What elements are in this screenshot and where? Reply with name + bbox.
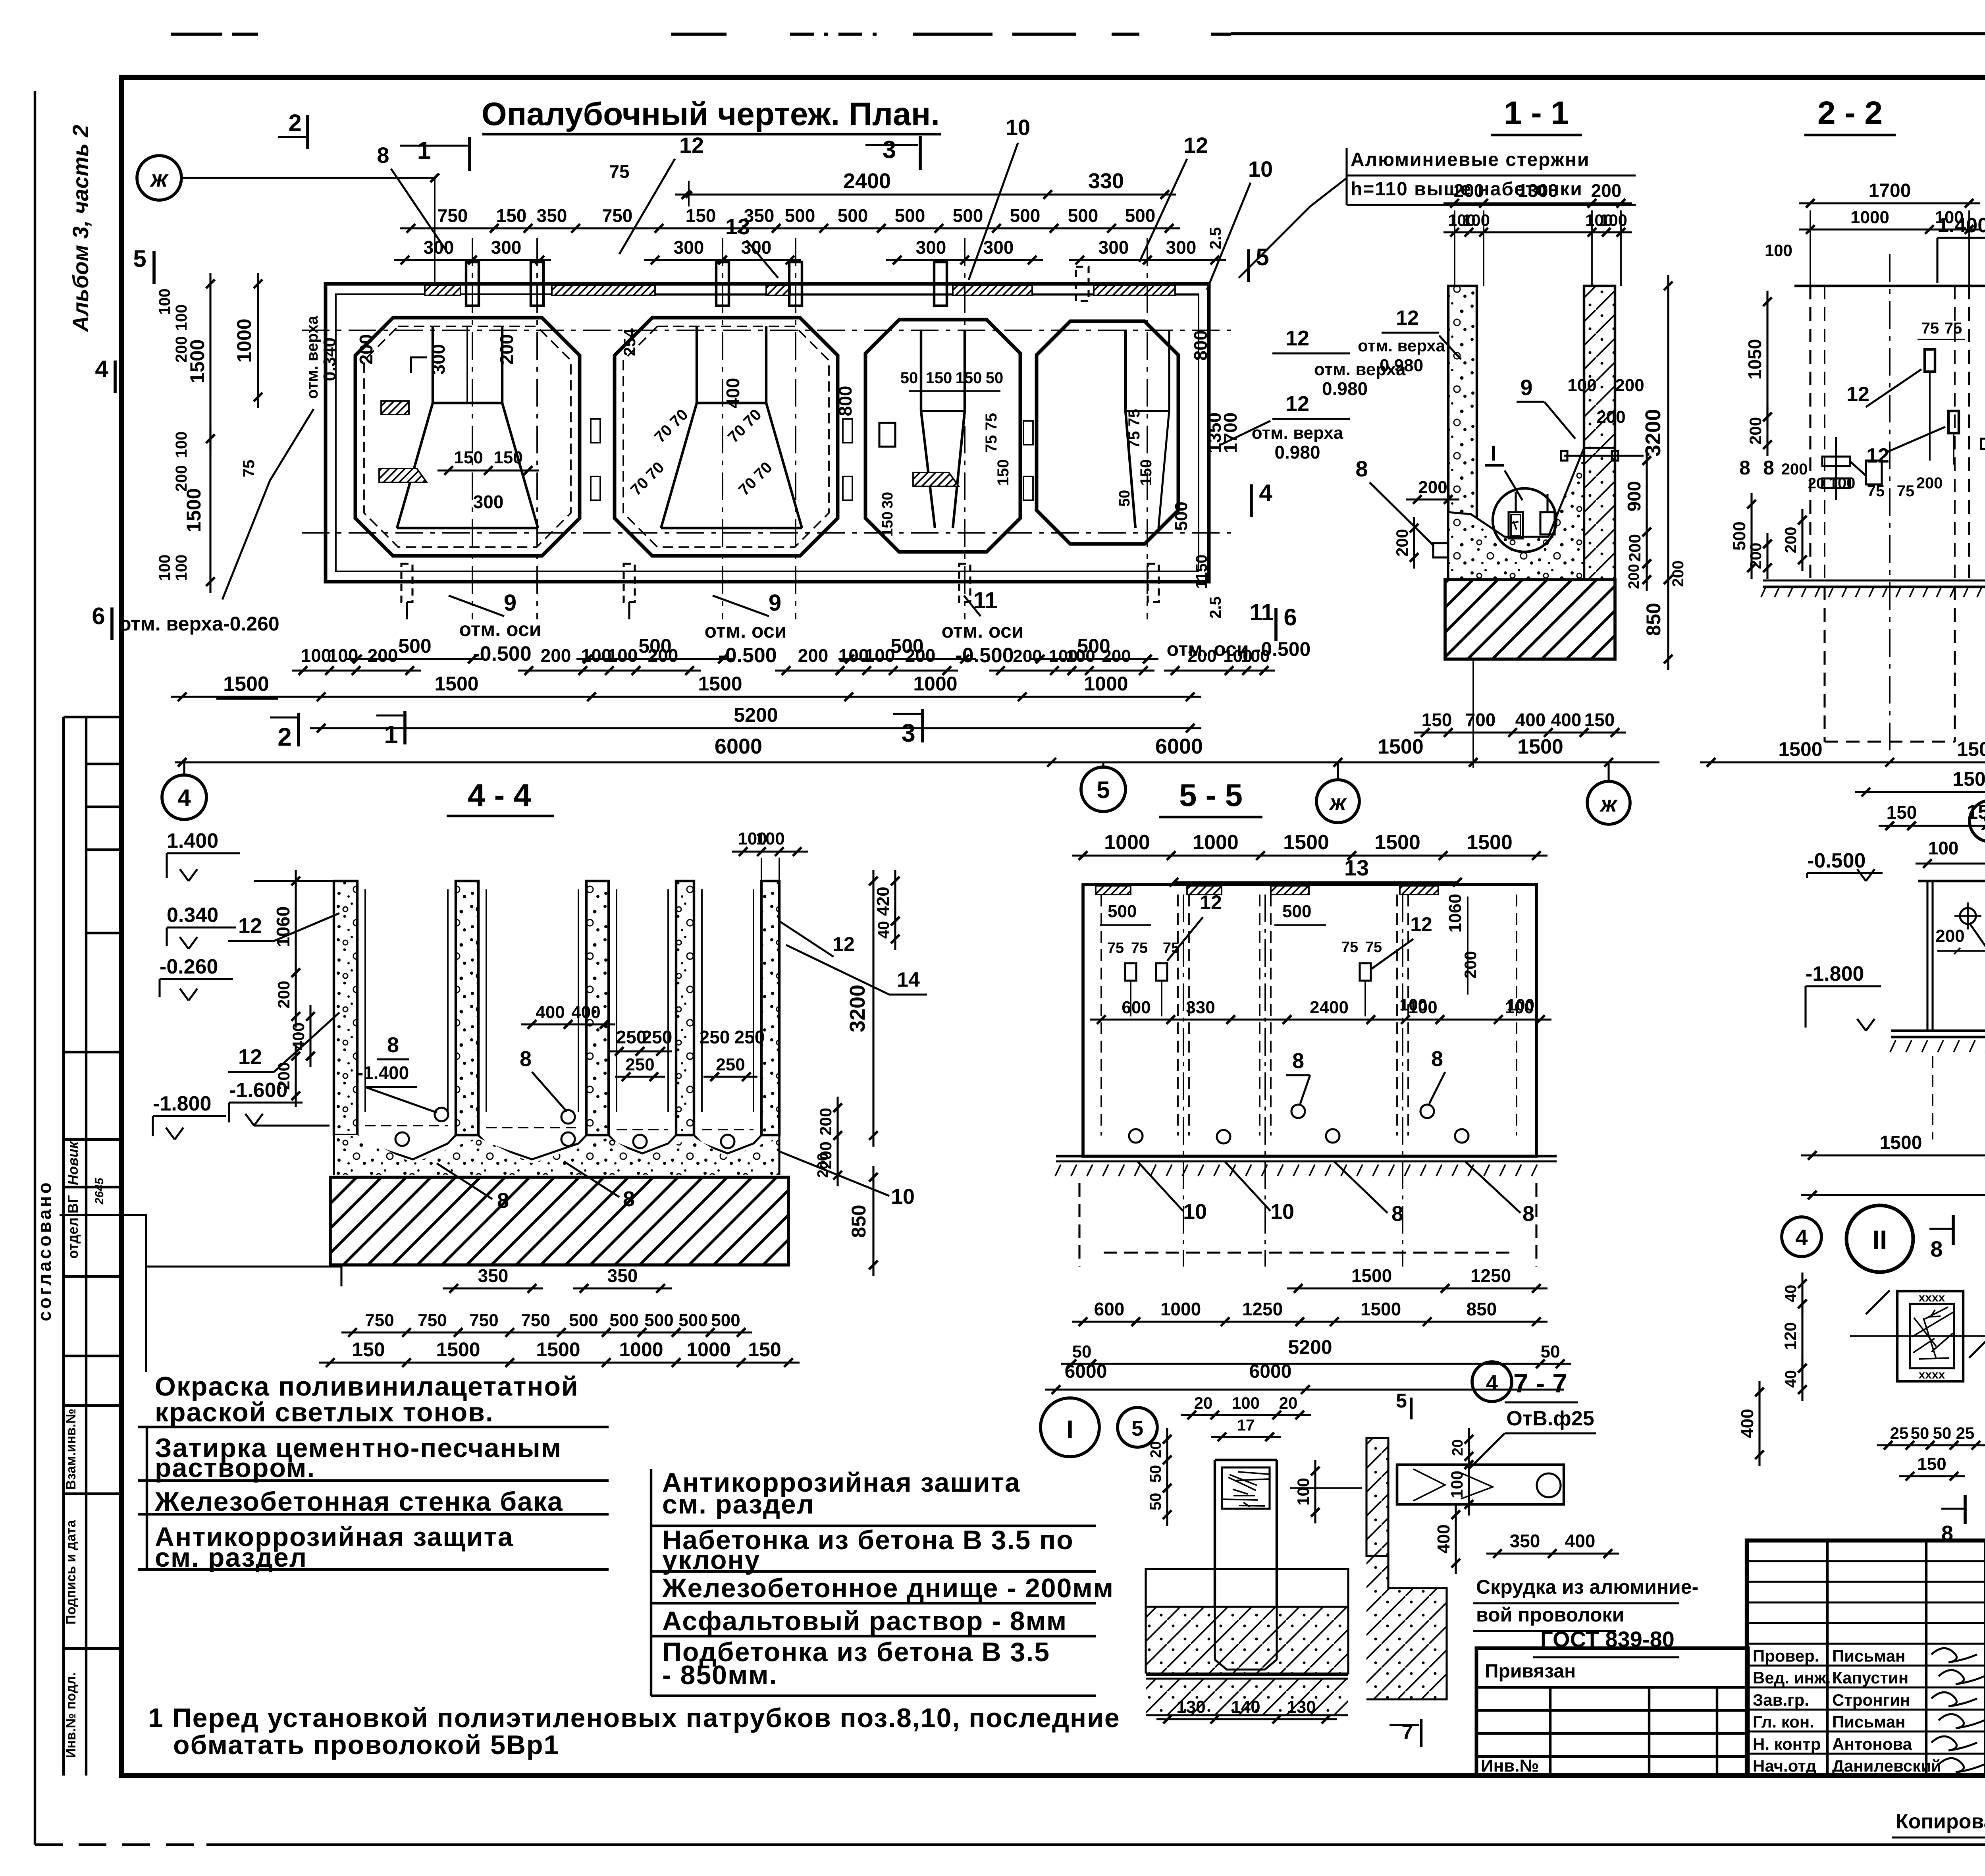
svg-text:750: 750 [418,1311,447,1330]
left stamp column [62,717,65,1776]
cell 3 interior funnel [920,330,922,411]
svg-text:200: 200 [356,334,376,365]
svg-text:200: 200 [905,645,936,666]
svg-text:Капустин: Капустин [1832,1668,1908,1687]
svg-text:300: 300 [741,237,772,258]
svg-text:1060: 1060 [273,906,293,947]
svg-text:ж: ж [1599,791,1618,816]
svg-text:200: 200 [798,645,829,666]
svg-text:14: 14 [897,968,920,991]
svg-text:20: 20 [1808,475,1825,492]
grid circle Zh below 2-2 [1970,800,1985,842]
svg-text:3200: 3200 [1641,409,1665,457]
svg-text:4: 4 [95,356,108,382]
stamp signature rows [1747,1664,1985,1666]
svg-text:850: 850 [848,1205,870,1238]
svg-text:500: 500 [644,1311,673,1330]
svg-text:8: 8 [1391,1202,1403,1226]
svg-text:1: 1 [384,720,398,749]
svg-text:700: 700 [1465,710,1496,730]
svg-text:5: 5 [1097,777,1110,803]
svg-text:850: 850 [1642,603,1665,636]
svg-text:1060: 1060 [1445,894,1465,933]
svg-text:1 - 1: 1 - 1 [1504,95,1569,131]
svg-text:4: 4 [177,785,191,811]
svg-text:300: 300 [1098,237,1129,258]
svg-text:500: 500 [398,635,431,657]
svg-text:Стронгин: Стронгин [1832,1691,1910,1709]
svg-text:Письман: Письман [1832,1647,1905,1665]
svg-text:1250: 1250 [1470,1265,1511,1286]
svg-text:400: 400 [1515,710,1546,730]
svg-text:Антонова: Антонова [1832,1735,1912,1753]
2-2 left dims [1766,291,1768,428]
detail I wood block [1222,1467,1270,1509]
svg-text:200: 200 [274,1062,293,1090]
svg-text:200: 200 [1454,180,1484,201]
svg-text:Подпись и дата: Подпись и дата [64,1519,79,1625]
svg-text:100: 100 [1462,211,1490,229]
svg-text:2.5: 2.5 [1207,227,1224,249]
svg-text:0.980: 0.980 [1380,356,1423,375]
svg-text:0.980: 0.980 [1322,378,1368,399]
svg-text:500: 500 [569,1311,598,1330]
svg-text:350: 350 [607,1265,638,1286]
detail II cut 8 below [1941,1508,1965,1510]
svg-text:100: 100 [1567,376,1596,395]
svg-text:0.340: 0.340 [320,337,339,381]
svg-text:12: 12 [1285,326,1309,350]
svg-text:130: 130 [1287,1697,1316,1717]
svg-text:2.5: 2.5 [1207,596,1224,619]
svg-text:1500: 1500 [1957,738,1985,760]
5-5 hole circles [1129,1129,1143,1143]
svg-text:0.340: 0.340 [167,904,218,927]
2-2 top edge [1794,285,1985,287]
svg-text:1500: 1500 [1378,735,1424,758]
svg-text:400: 400 [289,1022,308,1050]
2-2 plate right mid [1981,439,1985,449]
svg-text:100: 100 [1765,241,1792,260]
svg-text:750: 750 [469,1311,498,1330]
svg-text:1500: 1500 [1967,801,1985,823]
svg-text:ж: ж [1328,790,1347,815]
svg-text:ОтВ.ф25: ОтВ.ф25 [1506,1407,1594,1430]
svg-text:200: 200 [173,336,190,363]
1-1 right wall [1584,286,1615,580]
svg-text:400: 400 [1565,1531,1596,1551]
circled 5 mid [1081,767,1125,812]
svg-text:отм. верха: отм. верха [1358,336,1445,355]
detail II break lines [1866,1290,1890,1314]
svg-text:150: 150 [926,369,952,387]
svg-text:10: 10 [891,1185,915,1209]
svg-text:2400: 2400 [843,169,891,193]
svg-text:0.980: 0.980 [1274,442,1320,463]
pipe stubs on top wall [466,262,479,306]
svg-text:200: 200 [1746,417,1765,445]
svg-text:850: 850 [1467,1299,1497,1319]
4-4 interior dims [521,1023,615,1025]
svg-text:420: 420 [873,887,893,916]
cell 2 interior funnel [696,326,698,403]
svg-text:1500: 1500 [536,1338,580,1361]
svg-text:50: 50 [1147,1493,1164,1511]
small side stubs [591,419,600,443]
svg-text:100: 100 [1241,646,1270,666]
svg-text:4: 4 [1259,480,1272,506]
svg-text:Письман: Письман [1832,1712,1905,1731]
svg-text:50: 50 [1911,1424,1929,1442]
svg-text:отм. верха-0.260: отм. верха-0.260 [119,613,279,635]
6-6 hole circles [1960,908,1976,924]
grid circle Zh below plan [1316,780,1359,823]
svg-text:2 - 2: 2 - 2 [1817,95,1883,131]
svg-text:10: 10 [1270,1200,1294,1224]
detail I foundation [1146,1569,1348,1607]
svg-text:400: 400 [1738,1409,1757,1438]
svg-text:ж: ж [150,166,169,192]
svg-text:400: 400 [536,1003,565,1022]
svg-text:100: 100 [1232,1394,1260,1412]
circled 4 left [162,775,206,819]
svg-text:75: 75 [1867,482,1885,500]
plan left dimensions [209,273,211,450]
pipe stubs on bottom wall [401,564,412,602]
svg-text:150: 150 [454,448,483,467]
svg-text:- 850мм.: - 850мм. [662,1660,778,1690]
7-7 wood plank [1397,1465,1564,1504]
svg-text:1500: 1500 [1361,1299,1401,1319]
svg-text:I: I [1490,442,1496,465]
svg-text:200: 200 [816,1108,835,1136]
svg-text:8: 8 [1739,457,1750,479]
1-1 bottom concrete mass [1448,448,1584,580]
cell 4 interior funnel [1124,330,1127,411]
svg-text:150: 150 [994,459,1012,486]
svg-text:7 - 7: 7 - 7 [1513,1368,1567,1398]
svg-text:8: 8 [387,1033,399,1057]
svg-text:140: 140 [1231,1697,1260,1717]
svg-text:см. раздел: см. раздел [155,1542,307,1573]
svg-text:150: 150 [496,205,527,226]
svg-text:350: 350 [537,205,567,226]
svg-text:500: 500 [895,205,925,226]
svg-text:Нач.отд: Нач.отд [1753,1756,1816,1775]
5-5 dashed foundation [1078,1183,1080,1267]
grid circle Zh top-left [137,156,181,200]
tank cell 4 octagon [1037,321,1178,544]
svg-text:Копировал: Боброва: Копировал: Боброва [1896,1810,1985,1833]
4-4 inner wall faces [364,889,366,1112]
svg-text:1500: 1500 [1880,1132,1922,1153]
svg-text:Асфальтовый раствор - 8мм: Асфальтовый раствор - 8мм [662,1606,1067,1636]
svg-text:12: 12 [679,133,704,158]
svg-text:I: I [1066,1415,1073,1444]
svg-text:-1.400: -1.400 [357,1062,409,1083]
svg-text:Инв.№ подл.: Инв.№ подл. [64,1672,79,1758]
4-4 bottom dims [443,1287,543,1289]
svg-text:отм. оси: отм. оси [942,620,1024,642]
circled I and 5 [1041,1398,1099,1457]
svg-text:Алюминиевые стержни: Алюминиевые стержни [1351,149,1590,170]
svg-text:5: 5 [1256,244,1269,270]
svg-text:2645: 2645 [93,1177,106,1205]
svg-text:8: 8 [377,143,389,168]
svg-text:12: 12 [1396,307,1419,330]
svg-text:200: 200 [541,645,571,666]
svg-text:150: 150 [1422,710,1452,730]
svg-text:8: 8 [1431,1047,1443,1071]
small privyazan table [1476,1648,1748,1776]
nabetonka hatched strips on top wall [425,285,461,295]
svg-text:150: 150 [879,511,896,536]
svg-text:краской светлых тонов.: краской светлых тонов. [155,1397,494,1427]
svg-text:50: 50 [900,369,918,387]
svg-text:75 75: 75 75 [983,413,1000,453]
svg-text:1000: 1000 [233,318,255,362]
svg-text:75: 75 [240,460,258,478]
svg-text:4: 4 [1795,1225,1808,1250]
svg-text:100: 100 [173,555,190,581]
svg-text:50: 50 [1072,1342,1092,1361]
svg-text:100: 100 [301,645,331,666]
svg-text:500: 500 [1010,205,1041,226]
5-5 outline [1083,885,1536,1156]
4-4 U bottoms and funnels [357,1135,456,1159]
svg-text:12: 12 [1200,891,1222,914]
svg-text:100: 100 [607,645,638,666]
svg-text:100: 100 [328,645,358,666]
4-4 foundation slab [330,1177,788,1265]
svg-text:10: 10 [1006,115,1030,140]
grid circles below 6-6 [1782,1217,1821,1257]
svg-text:330: 330 [1186,998,1215,1017]
svg-text:4 - 4: 4 - 4 [468,777,532,813]
1-1 anchors in floor [1509,512,1523,538]
embedded anchor cell3 [913,472,959,486]
svg-text:200: 200 [1596,407,1625,427]
svg-text:200: 200 [1102,646,1131,666]
svg-text:200: 200 [1916,474,1943,492]
svg-text:Н. контр: Н. контр [1753,1735,1821,1753]
4-4 dashed floor lines [365,1125,448,1126]
svg-text:150: 150 [956,369,982,387]
circled 4 near 7-7 [1472,1362,1512,1402]
stamp upper-left thin rows [1747,1560,1985,1562]
svg-text:Железобетонное днище - 200мм: Железобетонное днище - 200мм [662,1573,1114,1603]
svg-text:1500: 1500 [1517,735,1563,758]
detail II dims [1801,1273,1803,1315]
svg-text:100: 100 [1447,1471,1466,1498]
cell 1 interior funnel [432,326,434,403]
svg-text:1050: 1050 [1744,339,1765,380]
svg-text:4: 4 [1486,1371,1498,1395]
svg-text:350: 350 [1510,1531,1540,1551]
svg-text:150: 150 [686,205,716,226]
svg-text:1300: 1300 [1518,180,1558,201]
detail I dims [1181,1414,1311,1416]
svg-text:500: 500 [1108,902,1137,921]
svg-text:отдел ВГ: отдел ВГ [65,1195,81,1259]
svg-text:12: 12 [1183,133,1208,158]
svg-text:200: 200 [1625,534,1644,562]
svg-text:800: 800 [1190,330,1211,361]
svg-text:1500: 1500 [698,673,742,695]
svg-text:Железобетонная стенка бака: Железобетонная стенка бака [154,1487,563,1517]
svg-text:1700: 1700 [1869,180,1911,201]
svg-text:500: 500 [838,205,868,226]
6-6 top dim row [1916,862,1985,864]
svg-text:100: 100 [1399,995,1427,1014]
svg-text:6000: 6000 [715,735,762,758]
svg-text:100: 100 [156,289,173,315]
svg-text:200: 200 [1626,564,1642,589]
svg-text:30: 30 [879,492,896,509]
svg-text:130: 130 [1176,1697,1205,1717]
svg-text:-0.260: -0.260 [160,955,218,978]
svg-text:200: 200 [1418,478,1447,497]
svg-text:1500: 1500 [1283,831,1329,854]
3-3 bottom dims [1855,791,1985,793]
svg-text:300: 300 [491,237,522,258]
svg-text:1.400: 1.400 [167,829,218,852]
svg-text:750: 750 [437,205,468,226]
svg-text:8: 8 [1763,457,1774,479]
4-4 pipe circles [395,1132,409,1146]
svg-text:раствором.: раствором. [155,1453,315,1483]
1-1 left wall [1448,286,1477,580]
svg-text:75: 75 [1365,939,1382,956]
2-2 dashed foundation below [1823,587,1825,742]
svg-text:Привязан: Привязан [1485,1661,1576,1682]
svg-text:400: 400 [571,1003,600,1022]
svg-text:75: 75 [1897,482,1915,500]
outer sheet border [34,91,36,1845]
svg-text:25: 25 [1890,1424,1909,1442]
svg-text:100: 100 [1829,474,1856,492]
svg-text:12: 12 [238,1045,262,1069]
svg-text:500: 500 [678,1311,707,1330]
svg-text:отм. верха: отм. верха [1252,423,1343,443]
svg-text:50: 50 [1147,1465,1164,1483]
svg-text:6000: 6000 [1155,735,1203,758]
svg-text:750: 750 [602,205,633,226]
svg-text:150: 150 [748,1338,781,1361]
svg-text:12: 12 [1410,913,1432,935]
svg-text:1000: 1000 [1850,208,1889,227]
svg-text:-1.800: -1.800 [1806,962,1864,985]
svg-text:100: 100 [755,829,784,848]
4-4 bottom slab stipple [334,1135,779,1175]
svg-text:1500: 1500 [1351,1265,1392,1286]
svg-text:100: 100 [1600,211,1627,229]
svg-text:2: 2 [288,110,301,136]
svg-text:Взам.инв.№: Взам.инв.№ [64,1409,79,1490]
svg-text:200: 200 [1782,527,1800,553]
svg-text:500: 500 [1125,205,1156,226]
svg-text:500: 500 [953,205,983,226]
svg-text:12: 12 [833,933,855,955]
svg-text:вой проволоки: вой проволоки [1476,1604,1624,1626]
4-4 right wall top dims [732,850,808,852]
svg-text:8: 8 [1930,1236,1943,1261]
svg-text:13: 13 [1344,855,1369,880]
2-2 top dims [1799,202,1980,204]
svg-text:xxxx: xxxx [1919,1368,1945,1381]
svg-text:1000: 1000 [1084,673,1128,695]
5-5 dashed wall planes [1100,895,1102,1136]
svg-text:75: 75 [609,161,629,182]
svg-text:10: 10 [1183,1200,1207,1224]
svg-text:500: 500 [1068,205,1098,226]
svg-text:1500: 1500 [223,673,269,696]
tank cell 3 octagon [865,320,1020,552]
svg-text:1.400: 1.400 [1937,214,1985,237]
signature squiggles [1931,1648,1977,1662]
svg-text:200: 200 [1013,646,1042,666]
svg-text:20: 20 [1148,1441,1164,1458]
svg-text:500: 500 [1172,501,1191,530]
long leader line from text block [145,1267,147,1372]
svg-text:Новик: Новик [65,1141,81,1185]
svg-text:20: 20 [1449,1439,1466,1456]
svg-text:400: 400 [1551,710,1582,730]
5-5 nabetonka strips [1096,886,1131,895]
6-6 ground [1891,1030,1985,1032]
svg-text:8: 8 [497,1189,509,1213]
5-5 mid dim row [1090,1018,1551,1020]
svg-text:150: 150 [1917,1454,1946,1474]
svg-text:1250: 1250 [1242,1299,1283,1319]
svg-text:40: 40 [875,921,892,939]
svg-text:330: 330 [1088,169,1124,193]
svg-text:1000: 1000 [1160,1299,1201,1319]
svg-text:согласовано: согласовано [34,1180,55,1321]
6-6 bottom dims [1801,1154,1985,1156]
svg-text:9: 9 [769,590,781,616]
svg-text:Инв.№: Инв.№ [1481,1756,1539,1776]
svg-text:250: 250 [700,1027,730,1047]
svg-text:9: 9 [1520,375,1532,400]
svg-text:11: 11 [973,588,997,613]
svg-text:50: 50 [1116,490,1133,507]
svg-text:8: 8 [623,1187,635,1211]
svg-text:300: 300 [1166,237,1197,258]
svg-text:5200: 5200 [734,704,778,726]
svg-text:200: 200 [1461,951,1480,979]
svg-text:300: 300 [674,237,704,258]
6-6 below ground dashed [1932,1056,1933,1139]
svg-text:1500: 1500 [1952,768,1985,790]
svg-text:75 75: 75 75 [1125,409,1143,449]
svg-text:800: 800 [835,386,856,416]
svg-text:Гл. кон.: Гл. кон. [1753,1712,1814,1731]
svg-text:500: 500 [609,1311,638,1330]
svg-text:150: 150 [493,448,522,467]
svg-text:600: 600 [1094,1299,1125,1319]
svg-text:200: 200 [815,1153,831,1178]
svg-text:40: 40 [1782,1285,1800,1303]
svg-text:75: 75 [1945,320,1962,337]
1-1 top dims [1443,202,1632,204]
svg-text:6000: 6000 [1249,1361,1292,1382]
svg-text:1500: 1500 [1467,831,1513,854]
5-5 embedded plates [1125,963,1136,981]
svg-text:200: 200 [368,645,398,666]
svg-text:5: 5 [133,245,146,272]
7-7 wall [1366,1438,1388,1556]
